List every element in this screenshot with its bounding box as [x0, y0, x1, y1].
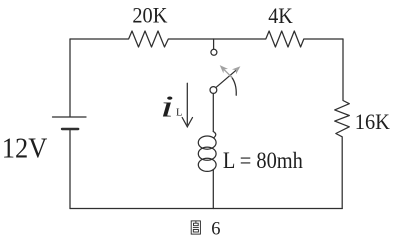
svg-text:6: 6: [211, 220, 220, 240]
svg-text:20K: 20K: [132, 2, 167, 27]
svg-text:L = 80mh: L = 80mh: [223, 148, 303, 174]
svg-text:4K: 4K: [268, 3, 293, 28]
svg-text:12V: 12V: [2, 134, 48, 165]
svg-text:i: i: [160, 89, 174, 123]
svg-text:L: L: [176, 108, 182, 119]
svg-text:16K: 16K: [355, 109, 390, 134]
